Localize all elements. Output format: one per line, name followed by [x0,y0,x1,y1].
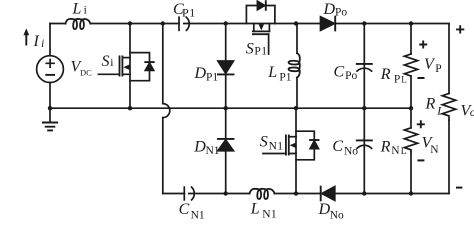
svg-text:i: i [84,4,87,16]
label DNo [318,201,344,221]
resistor RNL upper lead [410,108,412,128]
mosfet Si gate bar [119,56,121,75]
label RPL [380,66,407,86]
diode of SN1 bar [310,139,318,141]
svg-text:P: P [394,74,400,86]
svg-text:R: R [380,66,391,83]
label CP1 [173,1,196,19]
svg-text:P1: P1 [279,71,291,83]
inductor LP1 coil [289,53,300,77]
label VN [422,135,440,156]
plus sign VP [419,41,427,49]
mosfet SN1 gate bar [285,135,287,154]
current arrow Ii head [23,28,29,35]
capacitor CP1 left plate [178,17,180,30]
svg-text:N1: N1 [269,140,284,152]
wire middle rail [50,107,411,109]
wire vertical x163 bottom to bottom-left corner [162,118,164,194]
svg-text:N: N [430,144,439,156]
wire hop over middle rail [163,104,170,118]
svg-text:V: V [424,56,436,73]
capacitor CN1 left plate [183,187,185,200]
diode DN1 triangle [218,140,234,151]
diode DP1 branch upper lead [225,24,227,62]
label SN1 [260,133,284,152]
resistor RPL lower lead [410,76,412,108]
label CN1 [179,201,205,221]
label Ii [33,33,45,50]
svg-text:o: o [470,105,474,119]
mosfet Si channel bar [121,56,123,75]
voltage source VDC circle [37,56,64,83]
label CNo [332,138,358,158]
svg-text:R: R [380,139,391,156]
ground stem [49,108,51,122]
minus sign VN [417,159,424,161]
resistor RPL zigzag [404,54,417,76]
svg-text:C: C [179,201,190,218]
mosfet Si arrow [123,65,129,70]
plus sign VN [417,120,425,128]
inductor LP1 upper lead [296,24,298,54]
svg-text:D: D [194,65,207,82]
capacitor CPo curved plate [357,68,372,71]
node dot middle rail RPL [409,106,413,110]
minus sign output bottom right [456,187,462,189]
svg-text:S: S [102,53,110,70]
wire top rail C_P1 to S_P1 drain stub [184,23,254,25]
label Vo [461,102,474,119]
svg-text:P1: P1 [182,5,196,19]
diode DP1 triangle [218,61,234,73]
node dot bottom rail RNL [409,191,413,195]
label SP1 [246,41,268,58]
svg-text:L: L [72,0,82,17]
svg-text:P1: P1 [206,72,218,84]
svg-text:L: L [401,147,407,157]
svg-text:Po: Po [345,70,357,82]
node dot middle rail source [48,106,52,110]
diode DNo triangle [322,187,335,201]
diode DN1 lower lead [225,151,227,194]
mosfet SP1 arrow [259,24,264,30]
mosfet SN1 arrow [290,143,296,148]
wire right vertical upper (to R_L top) [448,24,450,94]
wire left vertical source top lead [49,24,51,56]
label DN1 [193,138,220,156]
capacitor CNo upper lead [363,108,365,145]
diode DN1 upper lead [225,108,227,139]
diode of SN1 triangle [310,141,318,149]
label LN1 [250,200,277,220]
diode of SP1 triangle [257,1,264,10]
svg-text:N1: N1 [206,145,220,157]
node dot top rail LP1 [294,21,298,25]
svg-text:N: N [391,145,400,157]
ground bars [43,123,57,131]
switch SP1 drain stub [253,24,255,32]
svg-text:D: D [323,1,336,18]
mosfet SP1 source stub [268,24,270,32]
svg-text:DC: DC [80,67,92,77]
svg-text:N1: N1 [191,209,205,221]
label Si [102,53,114,70]
switch SN1 body diode branch [296,131,314,160]
capacitor CPo upper lead [363,24,365,69]
label RL [425,96,445,118]
svg-text:L: L [267,64,277,81]
switch SP1 wire through [254,23,270,25]
wire bottom rail D_No to right corner [335,193,449,195]
mosfet SN1 drain stub [289,136,296,138]
node dot bottom rail DN1 [224,191,228,195]
wire source bottom lead [49,83,51,109]
svg-text:i: i [41,36,44,50]
capacitor CPo lower lead [363,68,365,108]
mosfet SP1 gate bar [253,33,269,35]
capacitor CPo straight plate [357,63,372,65]
diode of SP1 bar [265,1,267,10]
plus sign output top right [456,25,464,33]
capacitor CN1 right curved plate [192,187,195,200]
svg-text:I: I [33,33,40,50]
wire right vertical lower (R_L bottom to bottom rail) [448,120,450,193]
mosfet SN1 body vertical [295,137,297,194]
node dot middle rail Si [128,106,132,110]
svg-text:C: C [332,138,343,155]
label DP1 [194,65,219,83]
svg-text:R: R [425,96,436,113]
node dot top rail CPo [362,21,366,25]
inductor Li coil [65,19,90,29]
wire bottom rail left segment to C_N1 [163,193,185,195]
capacitor CNo lower lead [363,145,365,193]
mosfet SP1 channel bar [253,30,270,32]
mosfet Si body vertical [129,58,131,109]
mosfet SN1 channel bar [288,135,290,154]
node dot bottom rail CNo [362,191,366,195]
diode DP1 lower lead [225,74,227,108]
inductor LP1 lower lead [296,78,298,109]
svg-text:D: D [193,138,206,155]
label VDC [71,59,93,78]
switch SN1 upper wire [295,108,297,137]
resistor RNL zigzag [404,128,417,152]
svg-text:N1: N1 [262,208,277,220]
diode DP1 bar [218,73,234,75]
resistor RPL upper lead [410,24,412,55]
inductor LN1 coil [250,189,275,199]
svg-text:C: C [334,64,345,81]
svg-text:L: L [436,104,444,118]
node dot bottom rail SN1 [294,191,298,195]
svg-text:L: L [401,75,407,85]
mosfet SN1 source stub and gate lead [263,153,296,155]
node dot top rail x163 [161,21,165,25]
source plus sign [46,60,54,68]
label LP1 [267,64,291,83]
switch SP1 body diode branch [246,6,275,24]
wire top rail S_P1 to right corner [269,23,449,25]
wire top rail left segment (source top to C_P1 left plate) [50,23,179,25]
capacitor CNo curved plate [357,145,372,148]
mosfet Si source stub and gate lead [99,73,131,75]
label Li [72,0,87,17]
wire bottom rail C_N1 to L_N1 [189,193,250,195]
mosfet SP1 gate lead [268,34,270,54]
resistor RL zigzag [442,94,455,121]
svg-text:Po: Po [335,7,347,19]
label DPo [323,1,348,18]
label CPo [334,64,358,83]
diode of Si triangle [145,63,153,70]
mosfet Si drain stub [122,57,130,59]
capacitor CP1 right curved plate [186,17,189,30]
node dot top rail RPL [409,21,413,25]
diode DPo left wire on top rail [321,23,336,25]
diode DPo triangle [321,17,335,31]
diode DPo bar [334,17,336,31]
node dot middle rail CPo [362,106,366,110]
svg-text:S: S [246,41,254,58]
current arrow Ii [25,34,27,45]
capacitor CNo straight plate [357,139,372,141]
node dot middle rail LP1 [294,106,298,110]
switch Si body diode branch [130,53,150,81]
svg-text:S: S [260,133,268,150]
minus sign VP [418,77,425,79]
svg-text:D: D [318,201,331,218]
svg-text:No: No [344,146,358,158]
switch Si branch upper wire [129,24,131,58]
svg-text:No: No [330,209,344,221]
svg-text:L: L [250,200,260,217]
wire bottom rail L_N1 to D_No [275,193,321,195]
diode DNo bar [320,187,322,201]
node dot top rail Si [128,21,132,25]
label VP [424,56,442,75]
node dot middle rail DP1 [224,106,228,110]
svg-text:P1: P1 [254,45,267,57]
resistor RNL lower lead [410,152,412,194]
node dot top rail DP1 [224,21,228,25]
svg-text:i: i [110,57,113,69]
label RNL [380,139,407,157]
source minus sign [46,74,54,76]
diode of Si bar [145,61,153,63]
wire vertical x163 top (C_P1 left node down) [162,24,164,104]
diode DN1 bar [218,138,234,140]
svg-text:P: P [435,63,441,75]
